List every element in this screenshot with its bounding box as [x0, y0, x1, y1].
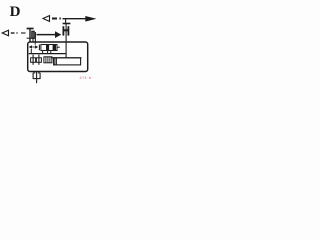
wire vertical drop from top line to dog — [65, 19, 67, 24]
solid right motion arrowhead — [55, 31, 61, 38]
tank cup right wall — [39, 73, 41, 79]
dog right bar — [67, 26, 69, 35]
check valve A body — [31, 58, 36, 63]
control box outline — [28, 42, 88, 72]
solid right arrowhead of top line — [85, 16, 96, 22]
pilot spool double arrow right head — [35, 45, 38, 48]
throttle hatch line 1 — [45, 57, 47, 63]
reversing lever second bar — [32, 31, 34, 38]
pilot spool double arrow left head — [29, 45, 32, 48]
tank cup top-right segment — [38, 72, 40, 74]
cylinder body — [54, 58, 81, 65]
drop tick 3 below spool right — [50, 51, 52, 54]
lever rect center line — [32, 32, 34, 39]
piston (filled) — [53, 58, 54, 65]
wire dash 1 of lower dash-dot line — [11, 32, 15, 34]
wire dot of lower dash-dot line — [16, 32, 17, 34]
left outline arrowhead of lower dash-dot line — [2, 30, 8, 36]
left outline arrowhead of top dash-dot motion line — [43, 16, 50, 22]
lever leg — [32, 38, 34, 42]
dog crossbar — [63, 29, 68, 31]
drop tick below double arrow — [30, 49, 32, 54]
cylinder top line — [51, 57, 82, 59]
solid right motion arrow shaft — [37, 34, 56, 36]
drop tick 1 below spool — [42, 51, 44, 54]
stub wire right of spool — [57, 46, 60, 48]
tank cup left wall — [32, 73, 34, 79]
dog block on table (cap) — [63, 23, 71, 25]
svg-text:D: D — [10, 4, 21, 20]
pilot valve spool body — [41, 45, 57, 51]
lever foot line — [27, 37, 36, 39]
check valve B body — [36, 58, 41, 63]
drop tick 2 below spool — [47, 51, 49, 54]
check valve A stem — [32, 55, 34, 65]
wire dot of top dash-dot line — [59, 18, 60, 20]
spool land 1 (filled) — [46, 45, 49, 51]
tank pipe — [36, 72, 38, 84]
tick from box top above spool — [34, 42, 36, 45]
throttle hatch line 3 — [49, 57, 51, 63]
post right of lever — [34, 32, 36, 42]
throttle (hatched) body — [44, 57, 52, 63]
reversing lever stem — [29, 29, 31, 42]
spool land 2 (filled) — [53, 45, 56, 51]
wire top solid line to right arrow — [63, 18, 90, 20]
throttle hatch line 2 — [47, 57, 49, 63]
wire dash of top dash-dot line — [52, 18, 57, 20]
manifold line — [29, 53, 66, 55]
reversing lever T-cap — [27, 28, 34, 30]
tank cup top-left segment — [33, 72, 35, 74]
dog left bar — [62, 26, 64, 35]
wire dash 2 of lower dash-dot line — [21, 32, 26, 34]
tank cup bottom — [33, 78, 40, 80]
piston bar 2 — [56, 58, 57, 65]
tick before spool body — [38, 45, 40, 51]
rod from dog down into box — [65, 24, 67, 58]
check valve B stem — [38, 55, 40, 65]
pilot spool double arrow shaft — [32, 46, 34, 48]
svg-text:4?1·b·: 4?1·b· — [80, 75, 94, 80]
